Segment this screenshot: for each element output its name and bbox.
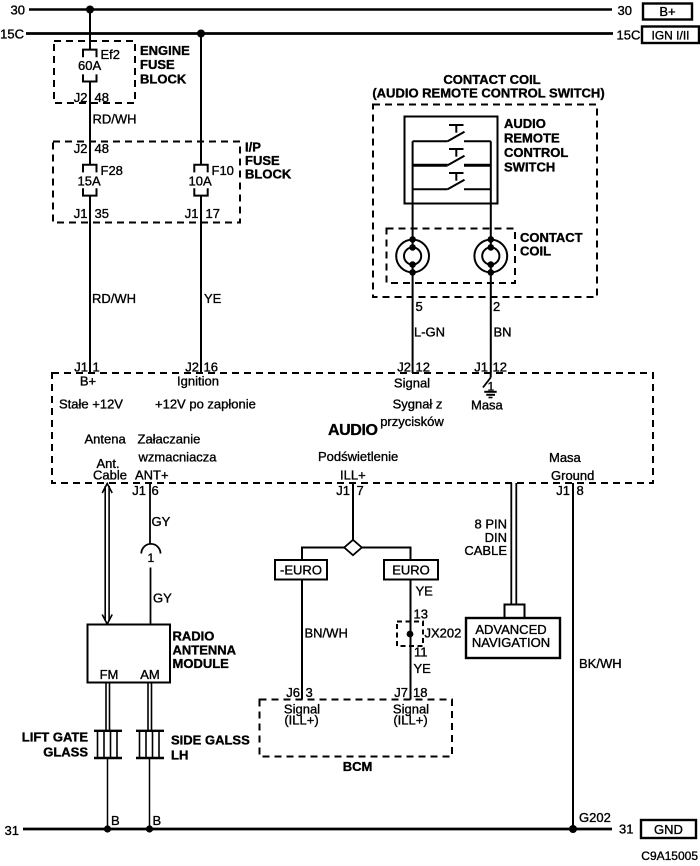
svg-text:J2: J2	[74, 90, 88, 105]
svg-text:31: 31	[619, 822, 633, 837]
junction JX202 dashed box	[397, 622, 461, 647]
svg-text:IGN I/II: IGN I/II	[651, 29, 689, 43]
svg-text:J6: J6	[286, 685, 300, 700]
svg-text:J2: J2	[74, 141, 88, 156]
svg-text:7: 7	[357, 483, 364, 498]
svg-text:12: 12	[493, 360, 507, 375]
svg-text:18: 18	[413, 685, 427, 700]
svg-text:ENGINE: ENGINE	[140, 43, 190, 58]
svg-text:1: 1	[93, 360, 100, 375]
switch contact 1	[413, 125, 491, 141]
wire B lift gate glass to bus 31	[108, 759, 120, 829]
svg-text:RADIO: RADIO	[173, 629, 215, 644]
wire B side glass to bus 31	[150, 759, 162, 829]
bus 15C	[0, 27, 640, 43]
svg-text:11: 11	[414, 645, 428, 660]
contact coil assembly title	[372, 72, 604, 101]
pin labels 11 YE below JX202	[414, 645, 432, 677]
side glass antenna element	[136, 731, 250, 763]
svg-text:(ILL+): (ILL+)	[284, 713, 318, 728]
svg-text:B+: B+	[80, 374, 96, 389]
fuse F10 10A	[189, 163, 234, 196]
svg-text:(AUDIO REMOTE CONTROL SWITCH): (AUDIO REMOTE CONTROL SWITCH)	[372, 86, 604, 101]
switch contact 3	[413, 173, 491, 189]
svg-text:BN/WH: BN/WH	[305, 626, 348, 641]
svg-text:J1: J1	[74, 360, 88, 375]
wire BK/WH audio ground to G202	[573, 483, 622, 829]
svg-text:C9A15005: C9A15005	[641, 849, 698, 863]
pin label J2 48 (I/P fuse block top)	[74, 141, 109, 156]
svg-text:CONTROL: CONTROL	[504, 145, 568, 160]
wire RD/WH fuse F28 to audio B+	[90, 196, 136, 373]
bus 30	[11, 3, 632, 19]
svg-text:35: 35	[95, 206, 109, 221]
svg-text:5: 5	[416, 299, 423, 314]
svg-text:GND: GND	[654, 822, 683, 837]
svg-text:NAVIGATION: NAVIGATION	[472, 635, 550, 650]
svg-text:12: 12	[416, 360, 430, 375]
svg-text:1: 1	[148, 551, 155, 565]
svg-text:YE: YE	[414, 661, 432, 676]
pin label J1 1 (B+)	[74, 360, 99, 389]
svg-text:G202: G202	[579, 810, 611, 825]
svg-text:Masa: Masa	[549, 450, 582, 465]
BCM dashed box	[260, 700, 453, 775]
wire ignition 15C to fuse F10	[200, 34, 202, 165]
svg-text:L-GN: L-GN	[414, 325, 445, 340]
svg-text:+12V po zapłonie: +12V po zapłonie	[155, 397, 256, 412]
svg-text:Masa: Masa	[471, 398, 504, 413]
AM antenna lead double wire	[148, 683, 152, 731]
svg-text:F28: F28	[101, 163, 123, 178]
svg-text:LH: LH	[171, 748, 188, 763]
svg-text:B: B	[153, 813, 162, 828]
svg-text:Ground: Ground	[551, 468, 594, 483]
svg-text:Stałe +12V: Stałe +12V	[59, 397, 123, 412]
svg-text:Antena: Antena	[85, 432, 127, 447]
pin label J6 3	[286, 685, 312, 700]
pin label J2 48 (engine fuse block)	[74, 90, 109, 105]
svg-text:17: 17	[206, 206, 220, 221]
contact coil left	[396, 236, 429, 276]
svg-text:SWITCH: SWITCH	[504, 160, 555, 175]
pin label J2 16 (Ignition)	[177, 360, 219, 389]
contact coil assembly dashed box	[373, 105, 597, 298]
wire RD/WH fuse Ef2 to I/P fuse block	[90, 82, 137, 165]
svg-text:B+: B+	[659, 4, 675, 19]
svg-text:BLOCK: BLOCK	[245, 167, 292, 182]
svg-text:J1: J1	[336, 483, 350, 498]
junction dot FM on bus 31	[104, 825, 111, 832]
svg-text:SIDE GALSS: SIDE GALSS	[171, 733, 250, 748]
svg-text:ANT+: ANT+	[135, 468, 169, 483]
diamond junction	[344, 540, 362, 555]
switch left rail	[412, 141, 414, 239]
svg-text:J1: J1	[132, 483, 146, 498]
svg-text:Ef2: Ef2	[101, 47, 121, 62]
wire B+ bus30 to fuse Ef2	[89, 10, 91, 50]
wire GY audio ANT+ to connector	[150, 483, 171, 544]
svg-text:Podświetlenie: Podświetlenie	[318, 449, 398, 464]
svg-text:30: 30	[618, 3, 632, 18]
switch right rail	[490, 141, 492, 239]
svg-text:Sygnał z: Sygnał z	[393, 397, 443, 412]
svg-text:J1: J1	[74, 206, 88, 221]
svg-text:RD/WH: RD/WH	[93, 112, 137, 127]
svg-text:48: 48	[95, 90, 109, 105]
wire BN coil pin 2 to audio masa	[491, 272, 512, 373]
svg-text:BK/WH: BK/WH	[579, 656, 622, 671]
svg-text:Cable: Cable	[93, 468, 127, 483]
svg-text:BLOCK: BLOCK	[140, 72, 187, 87]
svg-text:2: 2	[493, 299, 500, 314]
switch contact 2	[413, 149, 491, 165]
pin label J2 12 (Signal)	[394, 360, 430, 391]
svg-text:COIL: COIL	[520, 244, 551, 259]
junction dot AM on bus 31	[146, 825, 153, 832]
svg-text:16: 16	[204, 360, 218, 375]
svg-text:(ILL+): (ILL+)	[393, 713, 427, 728]
svg-text:LIFT GATE: LIFT GATE	[22, 730, 89, 745]
svg-text:EURO: EURO	[392, 563, 430, 578]
wire diamond to -EURO	[302, 548, 344, 561]
svg-text:Załaczanie: Załaczanie	[138, 432, 201, 447]
inline connector pin 1 (arc)	[141, 544, 160, 565]
svg-text:GY: GY	[152, 514, 171, 529]
svg-text:FM: FM	[100, 667, 119, 682]
pin label J1 17	[185, 206, 220, 221]
svg-text:31: 31	[5, 823, 19, 838]
svg-text:30: 30	[11, 3, 25, 18]
svg-text:Signal: Signal	[394, 376, 430, 391]
svg-text:J2: J2	[185, 360, 199, 375]
svg-text:AUDIO: AUDIO	[328, 422, 378, 439]
DIN connector plug	[505, 605, 525, 619]
svg-text:JX202: JX202	[425, 626, 462, 641]
svg-text:15C: 15C	[617, 28, 641, 43]
svg-text:YE: YE	[204, 291, 222, 306]
pin label J1 8 (Ground)	[556, 483, 583, 498]
svg-text:B: B	[111, 813, 120, 828]
svg-text:BN: BN	[494, 325, 512, 340]
contact coil dashed box	[387, 229, 583, 284]
svg-text:-EURO: -EURO	[280, 563, 322, 578]
svg-text:60A: 60A	[78, 58, 101, 73]
svg-text:MODULE: MODULE	[173, 656, 230, 671]
svg-text:FUSE: FUSE	[140, 57, 175, 72]
svg-text:J1: J1	[185, 206, 199, 221]
junction dot on bus 15C	[197, 30, 205, 38]
wire ILL+ audio to diamond junction	[352, 483, 354, 540]
GND box	[641, 820, 696, 838]
I/P fuse block box	[53, 140, 292, 223]
svg-text:15C: 15C	[0, 27, 24, 42]
radio antenna module box	[88, 625, 237, 683]
junction dot G202 on bus 31	[569, 810, 611, 833]
svg-text:CABLE: CABLE	[464, 543, 507, 558]
svg-text:J1: J1	[556, 483, 570, 498]
svg-text:przycisków: przycisków	[380, 414, 444, 429]
svg-text:10A: 10A	[189, 174, 212, 189]
advanced navigation box	[466, 618, 560, 658]
fuse F28 15A	[78, 163, 123, 196]
svg-text:J2: J2	[397, 360, 411, 375]
pin label J1 6 (ANT+)	[132, 483, 158, 498]
svg-text:RD/WH: RD/WH	[92, 291, 136, 306]
svg-text:J1: J1	[474, 360, 488, 375]
svg-text:F10: F10	[212, 163, 234, 178]
antenna coax cable double-line arrow	[102, 484, 112, 625]
svg-text:GY: GY	[153, 591, 172, 606]
audio box annotations	[59, 397, 594, 484]
fuse Ef2 60A	[78, 47, 120, 82]
contact coil right	[474, 236, 507, 276]
wire L-GN coil pin 5 to audio signal	[413, 272, 445, 373]
svg-text:8: 8	[577, 483, 584, 498]
IGN I/II supply box	[642, 27, 699, 44]
wire GY connector to radio antenna module	[151, 568, 173, 625]
pin label J7 18	[394, 685, 427, 700]
pin label J1 7 (ILL+)	[336, 483, 363, 498]
pin label J1 12 (Masa)	[474, 360, 507, 375]
lift gate glass antenna element	[22, 730, 122, 760]
svg-text:15A: 15A	[78, 174, 101, 189]
svg-text:wzmacniacza: wzmacniacza	[138, 450, 218, 465]
wire BN/WH -EURO to BCM	[302, 580, 348, 700]
wire YE EURO to JX202	[411, 580, 434, 700]
B+ supply box	[643, 4, 692, 20]
audio remote control switch box	[405, 116, 569, 204]
svg-text:BCM: BCM	[343, 759, 373, 774]
FM antenna lead double wire	[106, 683, 110, 731]
pin label J1 35	[74, 206, 109, 221]
svg-text:6: 6	[152, 483, 159, 498]
-EURO option box	[275, 560, 327, 580]
engine fuse block box	[54, 41, 190, 103]
svg-text:3: 3	[306, 685, 313, 700]
8 pin DIN cable	[464, 483, 516, 605]
svg-text:13: 13	[414, 607, 428, 622]
svg-text:GLASS: GLASS	[43, 745, 88, 760]
wire diamond to EURO	[362, 548, 411, 561]
svg-text:J7: J7	[394, 685, 408, 700]
svg-text:ILL+: ILL+	[340, 468, 366, 483]
svg-text:48: 48	[95, 141, 109, 156]
svg-text:REMOTE: REMOTE	[504, 131, 560, 146]
ground symbol inside audio box	[471, 373, 504, 413]
bus 31	[5, 822, 634, 839]
svg-text:Ignition: Ignition	[177, 374, 219, 389]
EURO option box	[384, 560, 438, 580]
svg-text:AUDIO: AUDIO	[504, 116, 546, 131]
AUDIO unit dashed box	[52, 373, 653, 483]
junction dot on bus 30	[86, 6, 94, 14]
wire YE fuse F10 to audio ignition	[201, 196, 222, 373]
svg-text:YE: YE	[416, 584, 434, 599]
svg-text:AM: AM	[140, 667, 160, 682]
